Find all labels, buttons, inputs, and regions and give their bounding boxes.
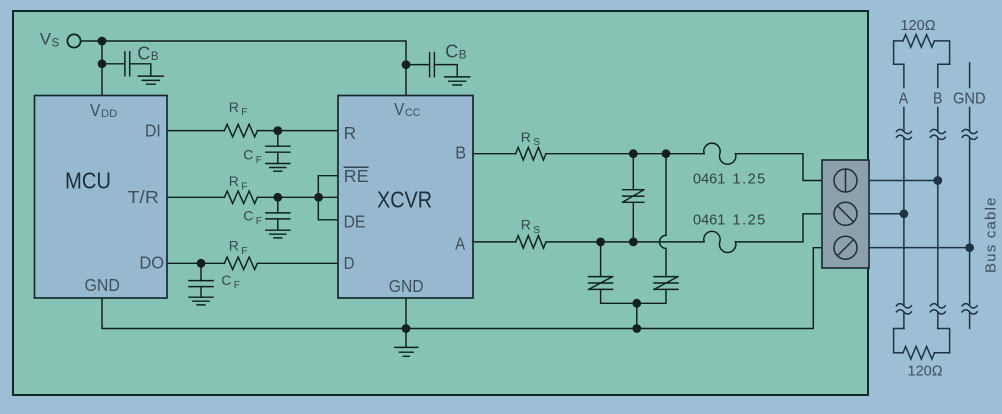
terminal Vs open circle — [67, 34, 80, 47]
wire: top supply rail Vs to VCC corner — [81, 41, 407, 95]
resistor RF3 — [224, 257, 257, 270]
svg-text:GND: GND — [389, 276, 424, 296]
svg-text:Bus cable: Bus cable — [983, 196, 1000, 273]
XCVR block — [338, 96, 473, 299]
capacitor C_B right plates — [430, 53, 435, 77]
wire: Vs branch down to MCU VDD — [101, 41, 103, 95]
capacitor C_B left plates — [125, 52, 130, 76]
terminal 3 screw — [834, 236, 857, 259]
node: rail / XCVR GND — [402, 324, 411, 333]
node: suppressor common — [632, 299, 641, 308]
svg-text:D: D — [344, 253, 355, 273]
node: rail / suppressor — [632, 324, 641, 333]
wire: MCU DI to resistor RF1 — [167, 130, 224, 132]
wire: fuse F2 to terminal 2 — [736, 214, 823, 242]
cable break B top — [930, 129, 945, 139]
node: A bus / terminal 2 — [900, 209, 909, 218]
wire: XCVR B pin to RS1 — [473, 153, 516, 155]
ground (C_B right) — [445, 77, 470, 85]
svg-text:XCVR: XCVR — [377, 187, 432, 213]
svg-text:V: V — [90, 100, 101, 120]
capacitor CF2: lead to ground — [277, 219, 279, 230]
wire: RS2 to fuse F2 — [546, 241, 704, 243]
resistor RF2 — [224, 191, 257, 204]
wire: RE/DE bracket — [318, 176, 338, 220]
suppressor TVS1 (between B and A) — [623, 190, 644, 203]
svg-text:T/R: T/R — [128, 187, 159, 207]
svg-text:CC: CC — [405, 107, 421, 119]
bus GND vertical (top stub) — [969, 63, 971, 131]
fuse F1 (0461 1.25) — [704, 143, 736, 164]
120 ohm bottom: resistor loop — [894, 329, 950, 353]
svg-text:DE: DE — [344, 212, 366, 232]
bus B vertical (top) — [937, 64, 939, 131]
capacitor C_B left: lead to ground — [130, 64, 151, 76]
node: A row TVS2 — [596, 238, 605, 247]
svg-text:120Ω: 120Ω — [901, 18, 936, 34]
svg-text:0461: 0461 — [693, 212, 725, 228]
ground (CF2) — [266, 230, 290, 238]
svg-text:DD: DD — [101, 108, 117, 120]
node: B row TVS1 — [629, 149, 638, 158]
capacitor C_B right: lead to ground — [434, 65, 457, 77]
wire: RS1 to fuse F1 — [546, 153, 704, 155]
wire: MCU T/R to resistor RF2 — [167, 196, 224, 198]
bus junction dots — [900, 176, 974, 252]
ground (CF1) — [266, 164, 290, 172]
wire: terminal 2 to A bus — [869, 213, 904, 215]
svg-text:DO: DO — [139, 252, 164, 272]
cable break B bottom — [930, 304, 945, 314]
cable break A top — [896, 129, 911, 139]
bus A vertical (top) — [903, 64, 905, 131]
svg-text:RE: RE — [344, 166, 369, 186]
cable break A bottom — [896, 304, 911, 314]
wire: RF3 to XCVR D pin — [257, 262, 338, 264]
terminal 2 screw — [834, 202, 857, 225]
svg-text:DI: DI — [145, 121, 161, 141]
wire: MCU GND down and ground rail — [102, 248, 822, 329]
node: B bus / terminal 1 — [933, 176, 942, 185]
svg-text:B: B — [933, 91, 942, 108]
node: CB right tap — [402, 60, 411, 69]
svg-text:1.25: 1.25 — [733, 212, 767, 228]
terminal block TB1 — [822, 160, 869, 268]
wire: XCVR A pin to RS2 — [473, 241, 516, 243]
wire: XCVR GND down to rail — [405, 298, 407, 329]
wire: B row drop to lower suppressor, hopping over A wire — [660, 154, 667, 277]
node: B row drop — [662, 149, 671, 158]
svg-text:0461: 0461 — [693, 172, 725, 188]
panel (isolated region) — [13, 11, 868, 395]
svg-text:1.25: 1.25 — [733, 172, 767, 188]
bus A vertical (mid) — [903, 138, 905, 329]
bus GND vertical (mid) — [969, 138, 971, 329]
node: RE/DE bracket — [314, 193, 323, 202]
fuse F2 (0461 1.25) — [704, 231, 736, 252]
capacitor CF3: lead to ground — [200, 287, 202, 298]
capacitor CF1: lead to ground — [277, 152, 279, 163]
suppressor TVS1 bottom lead — [632, 202, 634, 242]
node: Vs rail junction — [98, 37, 107, 46]
node: CB left tap — [98, 59, 107, 68]
ground (CF3) — [189, 297, 213, 305]
svg-text:V: V — [394, 99, 405, 119]
capacitor CF3 plates — [189, 281, 213, 287]
resistor RS2 — [516, 236, 546, 249]
wire: suppressor bottoms to common node — [601, 289, 666, 303]
ground (C_B left) — [138, 76, 163, 84]
terminal 1 screw — [834, 169, 857, 192]
capacitor CF3: lead — [200, 263, 202, 280]
capacitor CF2 plates — [266, 213, 290, 219]
bus B vertical (mid) — [937, 138, 939, 329]
suppressor TVS2 (left, from A row) lead — [600, 242, 602, 277]
capacitor CF1: lead — [277, 131, 279, 147]
120 ohm top: resistor loop — [894, 41, 903, 64]
node: A row TVS1 bottom — [629, 238, 638, 247]
capacitor CF2: lead — [277, 197, 279, 213]
capacitor C_B right: lead — [406, 64, 429, 66]
wire: MCU DO to resistor RF3 — [167, 262, 224, 264]
wire: terminal 1 to B bus — [869, 180, 938, 182]
node: GND bus / terminal 3 — [965, 243, 974, 252]
suppressor TVS1 top lead — [632, 154, 634, 190]
wire: RF2 to RE/DE bracket — [257, 196, 318, 198]
svg-text:R: R — [344, 123, 357, 143]
MCU block — [35, 96, 168, 299]
svg-text:A: A — [455, 233, 465, 253]
capacitor CF1 plates — [266, 146, 290, 152]
resistor RF1 — [224, 124, 257, 137]
wire: common node down to ground rail — [636, 303, 638, 328]
wire: terminal 3 to GND bus — [869, 247, 970, 249]
ground symbol at rail — [395, 329, 418, 357]
svg-text:GND: GND — [85, 275, 120, 295]
svg-text:B: B — [455, 143, 466, 163]
svg-text:GND: GND — [953, 91, 986, 108]
node: DI/CF1 — [273, 126, 282, 135]
suppressor TVS3 (right, from B drop) — [654, 277, 678, 290]
resistor RS1 — [516, 147, 546, 160]
right side bus wiring — [869, 35, 977, 360]
wire: RF1 to XCVR R pin — [257, 130, 338, 132]
svg-text:A: A — [899, 91, 909, 108]
cable break GND top — [962, 129, 977, 139]
svg-text:120Ω: 120Ω — [908, 363, 943, 379]
capacitor C_B left: lead — [102, 63, 125, 65]
suppressor TVS2 — [589, 277, 613, 290]
svg-text:MCU: MCU — [65, 168, 111, 194]
node: T/R CF2 — [273, 193, 282, 202]
wire: fuse F1 to terminal 1 — [736, 154, 823, 181]
cable break GND bottom — [962, 304, 977, 314]
node: DO/CF3 — [197, 259, 206, 268]
